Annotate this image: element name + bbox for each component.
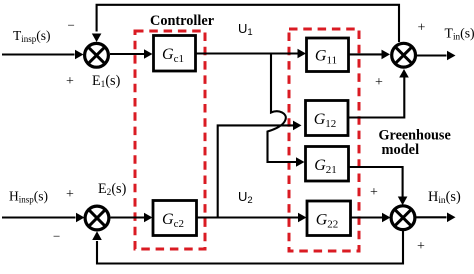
- block Gc1: [154, 36, 196, 72]
- svg-text:model: model: [382, 142, 420, 158]
- wire: bottom feedback from J4 down and into E2: [92, 230, 403, 264]
- wire: G21 down into J4: [349, 167, 408, 205]
- svg-text:+: +: [66, 187, 74, 202]
- svg-text:+: +: [417, 239, 425, 254]
- wire: G22 to J4: [351, 213, 391, 223]
- svg-text:−: −: [68, 18, 75, 33]
- svg-text:+: +: [375, 75, 383, 90]
- label Greenhouse model: [379, 128, 451, 158]
- summing junction J2 (Tin): [392, 43, 416, 67]
- block G22: [307, 201, 351, 236]
- svg-text:−: −: [53, 229, 60, 244]
- wire: U1 tap down to G21 (hop over U2 line): [268, 54, 305, 167]
- wire: G12 up into J2: [348, 69, 409, 118]
- svg-text:Hin(s): Hin(s): [428, 189, 461, 206]
- svg-text:Tinsp(s): Tinsp(s): [13, 28, 51, 44]
- wire: E2 to Gc2: [111, 213, 153, 223]
- svg-text:E2(s): E2(s): [98, 181, 127, 198]
- summing junction E1: [85, 43, 109, 67]
- summing junction J4 (Hin): [391, 206, 415, 230]
- wire: J2 to Tin(s) output: [417, 51, 456, 61]
- block G21: [306, 147, 349, 182]
- svg-text:E1(s): E1(s): [92, 73, 121, 90]
- block Gc2: [153, 201, 197, 236]
- wire: J4 to Hin(s) output: [416, 213, 456, 223]
- wire: E1 to Gc1: [110, 49, 153, 59]
- wire: U1 from Gc1 to G11: [196, 49, 307, 59]
- svg-text:U2: U2: [238, 189, 253, 206]
- svg-text:Tin(s): Tin(s): [445, 26, 474, 42]
- svg-text:+: +: [418, 21, 426, 36]
- wire: Hinsp(s) input into E2: [2, 213, 85, 223]
- wire: U2 tap up to G12: [218, 121, 302, 218]
- svg-text:Hinsp(s): Hinsp(s): [9, 189, 48, 205]
- wire: G11 to J2: [349, 50, 390, 60]
- dashed box Controller: [135, 31, 205, 249]
- wire: Tinsp(s) input into E1: [2, 50, 84, 60]
- svg-text:U1: U1: [238, 21, 253, 38]
- wire: top feedback from Tin node down into E1: [92, 5, 399, 42]
- svg-text:+: +: [370, 185, 378, 200]
- wire: U2 from Gc2 to G22: [197, 213, 307, 223]
- dashed box Greenhouse model: [289, 29, 359, 251]
- block G11: [307, 38, 349, 72]
- svg-text:+: +: [66, 74, 74, 89]
- summing junction E2: [85, 206, 109, 230]
- block G12: [306, 101, 349, 136]
- svg-text:Controller: Controller: [150, 13, 215, 29]
